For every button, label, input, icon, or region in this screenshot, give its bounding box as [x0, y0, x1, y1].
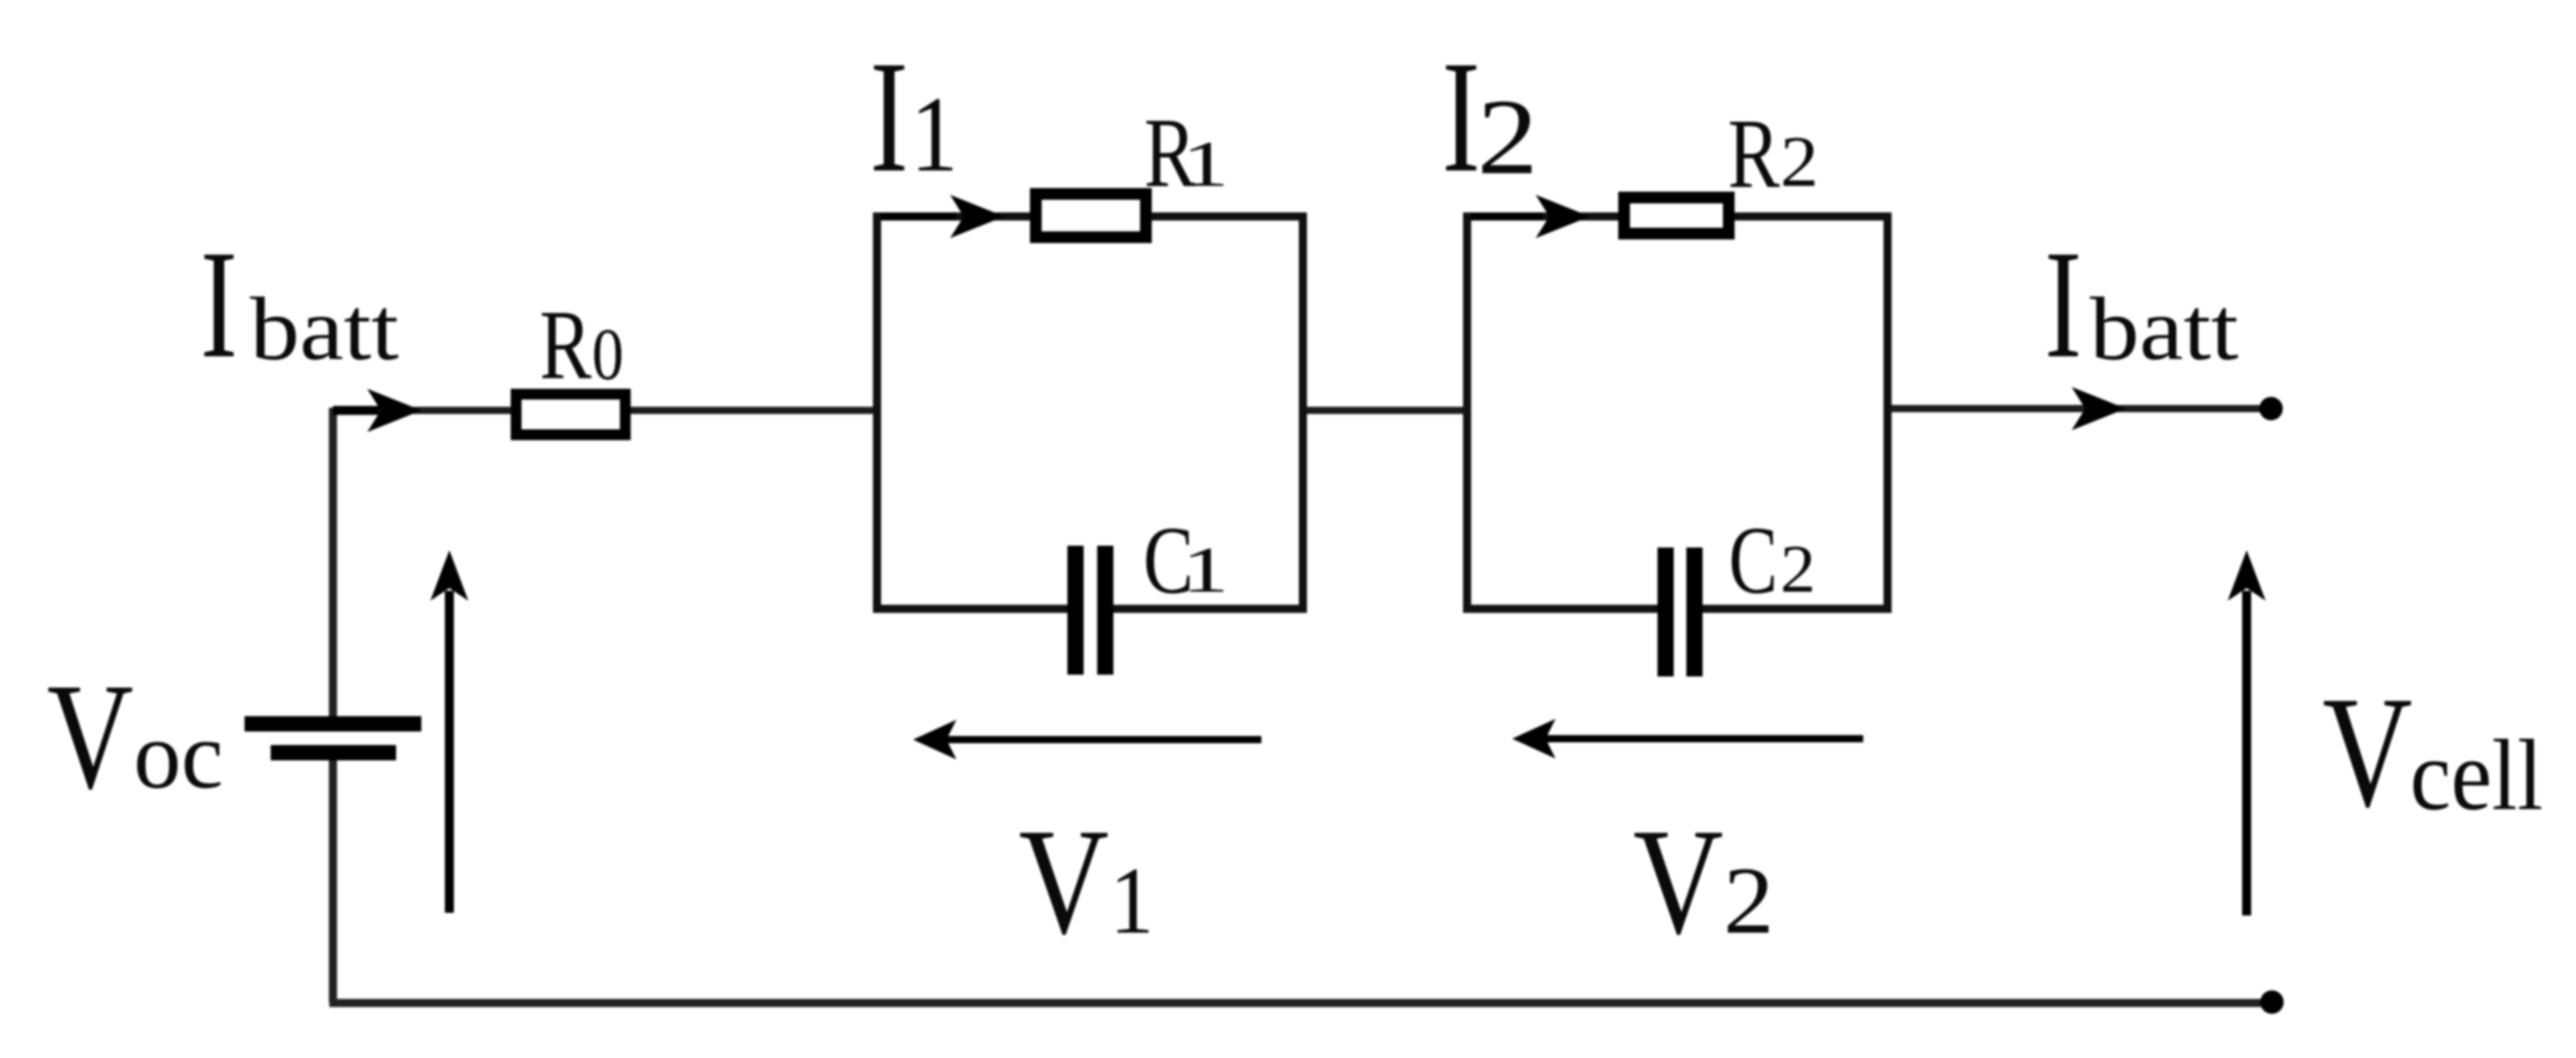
svg-text:cell: cell [2410, 720, 2543, 832]
svg-text:V: V [47, 652, 134, 821]
svg-text:1: 1 [910, 75, 958, 195]
svg-text:I: I [1442, 28, 1481, 206]
svg-text:V: V [1019, 797, 1109, 966]
svg-text:2: 2 [1780, 121, 1819, 202]
svg-text:V: V [1633, 797, 1723, 966]
svg-text:C: C [1729, 506, 1777, 613]
svg-text:2: 2 [1477, 77, 1538, 197]
svg-text:batt: batt [2090, 279, 2239, 379]
svg-text:I: I [200, 218, 237, 391]
svg-text:I: I [870, 28, 909, 206]
svg-text:V: V [2322, 665, 2413, 841]
svg-text:R: R [540, 290, 592, 400]
svg-text:2: 2 [1723, 848, 1774, 953]
svg-text:1: 1 [1110, 848, 1154, 954]
svg-text:1: 1 [1182, 129, 1229, 200]
svg-text:1: 1 [1182, 535, 1229, 606]
svg-text:2: 2 [1780, 531, 1815, 607]
svg-text:batt: batt [250, 279, 399, 379]
svg-text:0: 0 [592, 313, 623, 395]
svg-text:oc: oc [134, 701, 223, 808]
svg-text:R: R [1728, 99, 1780, 208]
svg-text:I: I [2045, 218, 2082, 391]
